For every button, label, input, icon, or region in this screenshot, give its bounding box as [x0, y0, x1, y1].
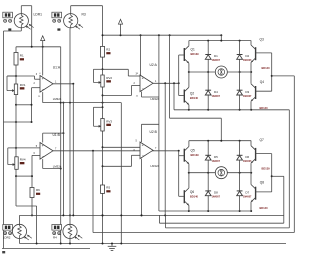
wire mid vertical A: [60, 47, 62, 244]
wire R6 bottom drop: [31, 198, 33, 216]
wire return outer: [93, 151, 294, 233]
svg-text:R1: R1: [20, 54, 24, 58]
svg-text:D4: D4: [214, 90, 218, 94]
wire U2:B ground pin: [141, 159, 143, 216]
node U1:A inv junctions: [31, 104, 33, 123]
resistor R6: [30, 188, 34, 198]
svg-text:1N4007: 1N4007: [212, 59, 221, 62]
svg-text:1N4007: 1N4007: [243, 160, 252, 163]
wire bus riser x158: [158, 35, 160, 211]
svg-text:U1:B: U1:B: [53, 133, 61, 137]
svg-text:1N4007: 1N4007: [243, 196, 252, 199]
node U2:B ground junction: [141, 214, 143, 216]
label Q1: [191, 48, 200, 57]
wire U1:B power pin: [43, 103, 64, 216]
control box R3: [52, 12, 62, 22]
wire LDR1 bottom to left run: [4, 28, 22, 249]
node motor2 nodes: [188, 172, 252, 174]
node R6 bottom junction: [31, 214, 33, 216]
wire Q7 Q8 base tie: [271, 154, 273, 192]
control box LDR1: [3, 12, 13, 22]
svg-text:RV2: RV2: [106, 76, 112, 80]
wire RV4 bottom run: [16, 176, 37, 243]
wire Q3 Q4 base feed: [272, 76, 295, 233]
transistor Q5: [179, 141, 189, 173]
wire U1:B inverting input: [16, 155, 40, 187]
diode D3: [237, 90, 243, 95]
svg-text:Q1: Q1: [191, 48, 195, 52]
node U2:A output junctions: [164, 82, 180, 84]
label Q7: [260, 138, 271, 171]
motor M1: [215, 66, 227, 78]
svg-text:BD139: BD139: [262, 167, 271, 171]
wire U1:B output: [53, 150, 179, 152]
label LDR1: [34, 12, 43, 16]
potentiometer RV4: [8, 148, 18, 169]
label RV1: [20, 83, 26, 90]
transistor Q2: [179, 72, 189, 110]
potentiometer RV3: [94, 107, 105, 131]
transistor Q7: [251, 141, 272, 173]
svg-text:Q3: Q3: [260, 38, 264, 42]
svg-text:1N4007: 1N4007: [212, 196, 221, 199]
node mid vertical A junctions: [60, 102, 65, 170]
svg-text:LDR2: LDR2: [3, 235, 11, 239]
LDR LDR1: [14, 14, 33, 30]
svg-text:Q5: Q5: [191, 148, 195, 152]
op-amp U1:A: [40, 76, 53, 93]
transistor Q3: [251, 41, 272, 72]
svg-text:RV1: RV1: [20, 83, 26, 87]
op-amp U1:B: [40, 143, 53, 160]
wire bridge1 top rail: [189, 35, 251, 40]
wire U1:A power pin: [42, 47, 44, 76]
node bridge2 top rail junctions: [207, 140, 240, 142]
diode D6: [237, 155, 243, 160]
label R1: [20, 54, 24, 61]
wire motor2 left: [189, 172, 216, 174]
svg-text:LM324: LM324: [53, 97, 62, 101]
svg-text:D1: D1: [214, 54, 218, 58]
wire U1:B ground pin: [43, 159, 61, 168]
wire motor1 left: [189, 71, 216, 73]
transistor Q6: [179, 173, 189, 211]
label R5: [106, 186, 110, 193]
node left chain junctions: [15, 75, 17, 149]
svg-text:1N4007: 1N4007: [243, 95, 252, 98]
label D1: [212, 54, 221, 62]
transistor Q8: [251, 173, 272, 211]
label D4: [212, 90, 221, 98]
svg-text:Q7: Q7: [260, 138, 264, 142]
label U2:A: [150, 63, 160, 101]
node bridge1 top rail junctions: [207, 40, 240, 42]
diode D7: [237, 191, 243, 196]
label D2: [243, 54, 252, 62]
node GND bus junctions: [62, 214, 166, 216]
LDR LDR2: [12, 224, 31, 240]
wire U1:A inverting input: [16, 88, 40, 122]
svg-text:BD139: BD139: [191, 153, 200, 157]
svg-text:−: −: [142, 87, 144, 91]
label LDR1 mark: [8, 28, 11, 30]
svg-text:LM324: LM324: [151, 164, 160, 168]
svg-text:BD140: BD140: [190, 96, 199, 100]
wire U1:A output: [53, 83, 73, 85]
label R3: [82, 12, 86, 16]
wire U2:B power pin: [142, 124, 159, 142]
pins U2:B: [134, 140, 158, 152]
label Q4: [260, 80, 269, 110]
label Q3: [260, 38, 271, 71]
label D5: [212, 155, 221, 163]
label D8: [212, 191, 221, 199]
wire mid column stack: [102, 57, 104, 243]
svg-text:1N4007: 1N4007: [243, 59, 252, 62]
wire bridge2 bottom rail: [159, 210, 251, 212]
label R4: [53, 235, 57, 239]
wire left reference chain: [15, 65, 17, 157]
control box LDR2: [3, 225, 13, 235]
node U1:B inv junctions: [15, 175, 33, 177]
node bridge2 bottom rail junctions: [188, 210, 252, 212]
wire VCC bus left: [16, 47, 61, 53]
wire U2:A output: [153, 82, 179, 84]
transistor Q1: [179, 41, 189, 72]
svg-text:D7: D7: [245, 191, 249, 195]
wire D1 column: [207, 41, 209, 110]
label Q6: [190, 190, 199, 199]
svg-text:D6: D6: [245, 155, 249, 159]
label Q5: [191, 148, 200, 157]
wire signal rail y102: [61, 103, 122, 244]
wire Q7 Q8 base feed: [272, 175, 284, 177]
svg-text:D3: D3: [245, 90, 249, 94]
wire D2 column: [239, 41, 241, 110]
svg-text:BD139: BD139: [191, 52, 200, 56]
node mid column junctions: [102, 68, 104, 216]
wire bridge2 vcc feed: [170, 35, 222, 141]
label RV2: [106, 76, 112, 83]
wire LDR1 net horizontal: [4, 121, 32, 123]
label RV4: [20, 158, 26, 165]
svg-text:R2: R2: [106, 47, 110, 51]
label D7: [243, 191, 252, 199]
wire R3 top to VCC bus: [71, 6, 103, 47]
potentiometer RV2: [94, 69, 105, 87]
diode D2: [237, 55, 243, 60]
svg-text:LM324: LM324: [151, 97, 160, 101]
transistor Q4: [251, 72, 272, 110]
node Q3 Q4 base junction: [271, 75, 273, 77]
wire R3-R4 sense column: [69, 28, 71, 225]
node VCC bus right junctions: [102, 34, 223, 36]
wire U2:B inverting input: [103, 155, 141, 166]
wire motor2 right: [227, 172, 251, 174]
svg-text:Q6: Q6: [190, 190, 194, 194]
op-amp U2:B: [140, 142, 153, 159]
wire outer bottom run: [2, 248, 90, 250]
wire bottom sensor net: [20, 239, 287, 244]
wire Q5 Q6 base column: [178, 151, 180, 197]
pins U1:A: [34, 73, 58, 98]
wire bridge1 bottom rail riser: [173, 83, 175, 110]
wire U2:A power pin: [140, 35, 142, 75]
label R3 mark: [57, 28, 60, 30]
wire U2:B non-inverting input: [103, 146, 141, 148]
svg-text:RV4: RV4: [20, 158, 26, 162]
pins U2:A: [134, 73, 158, 98]
svg-text:R3: R3: [82, 12, 86, 16]
svg-text:1N4007: 1N4007: [212, 160, 221, 163]
svg-text:U2:A: U2:A: [150, 63, 158, 67]
label LDR2: [3, 235, 11, 239]
node ground junction: [111, 243, 113, 245]
svg-text:D5: D5: [214, 155, 218, 159]
wire U2:A inverting input: [103, 86, 141, 96]
control box R4: [52, 225, 62, 235]
svg-text:−: −: [42, 88, 44, 92]
node U1:B output junctions: [92, 150, 180, 152]
diode D5: [205, 155, 211, 160]
label Q2: [190, 91, 199, 100]
power arrow left: [41, 36, 45, 47]
label U2:B: [150, 130, 160, 168]
node signal rail junctions: [69, 102, 104, 104]
wire U2:A ground pin: [142, 92, 159, 97]
wire return inner: [166, 110, 290, 228]
wire D6 column: [239, 141, 241, 211]
svg-text:Q8: Q8: [260, 181, 264, 185]
svg-text:−: −: [42, 155, 44, 159]
label R6: [36, 188, 40, 195]
power arrow right: [118, 19, 122, 35]
wire U1:A output drop: [72, 84, 74, 216]
op-amp U2:A: [140, 75, 153, 92]
node bridge1 bottom rail junctions: [188, 109, 252, 111]
potentiometer RV1: [7, 76, 18, 95]
node motor1 nodes: [188, 71, 252, 73]
label D6: [243, 155, 252, 163]
svg-text:D2: D2: [245, 54, 249, 58]
wire LDR1 top to VCC rail: [21, 6, 31, 47]
svg-text:RV3: RV3: [106, 119, 112, 123]
svg-text:BD140: BD140: [260, 106, 269, 110]
motor M2: [215, 167, 227, 179]
diode D8: [205, 191, 211, 196]
node VCC bus left junctions: [31, 46, 44, 48]
svg-text:U1:A: U1:A: [53, 66, 61, 70]
svg-text:R6: R6: [36, 188, 40, 192]
label Q8: [260, 181, 269, 210]
wire LDR2 top riser: [19, 215, 21, 224]
node U1:A output junction: [72, 83, 74, 85]
svg-text:Q4: Q4: [260, 80, 264, 84]
label R2: [106, 47, 110, 54]
LDR R3: [64, 14, 83, 30]
wire U2:A non-inverting input: [103, 69, 141, 76]
ground: [108, 244, 117, 251]
wire U1:A non-inverting input: [8, 76, 40, 79]
resistor R5: [101, 185, 105, 193]
wire bridge2 top rail: [189, 140, 251, 142]
node sense column junction: [69, 214, 71, 216]
svg-text:1N4007: 1N4007: [212, 95, 221, 98]
wire U2:A output branch: [164, 83, 166, 215]
svg-text:Q2: Q2: [190, 91, 194, 95]
svg-text:BD140: BD140: [260, 206, 269, 210]
wire return middle: [160, 176, 284, 223]
svg-text:D8: D8: [214, 191, 218, 195]
svg-text:R4: R4: [53, 235, 57, 239]
wire U1:A ground pin: [43, 92, 61, 103]
label U1:B: [53, 133, 62, 168]
wire VCC bus right: [103, 34, 222, 36]
label RV3: [106, 119, 112, 126]
svg-text:U2:B: U2:B: [150, 130, 158, 134]
svg-text:BD140: BD140: [190, 195, 199, 199]
svg-text:BD140: BD140: [262, 66, 271, 70]
wire Q3 Q4 base tie: [271, 53, 273, 91]
svg-text:LM324: LM324: [53, 164, 62, 168]
LDR R4: [63, 224, 82, 240]
wire bridge1 bottom rail: [174, 109, 289, 111]
wire Q1 Q2 base column: [178, 55, 180, 96]
diode D4: [205, 90, 211, 95]
node bottom sensor junctions: [36, 243, 123, 245]
wire GND bus: [20, 214, 284, 216]
wire motor1 right: [227, 71, 251, 73]
svg-text:R5: R5: [106, 186, 110, 190]
resistor R2: [101, 46, 105, 57]
label D3: [243, 90, 252, 98]
svg-text:−: −: [142, 154, 144, 158]
node Q7 Q8 base junction: [271, 175, 273, 177]
svg-text:LDR1: LDR1: [34, 12, 43, 16]
wire D5 column: [207, 141, 209, 211]
diode D1: [205, 55, 211, 60]
label corner mark: [2, 251, 5, 253]
label U1:A: [53, 66, 62, 102]
pins U1:B: [34, 145, 58, 155]
wire U1:B non-inverting input: [16, 147, 40, 149]
resistor R1: [14, 53, 18, 66]
